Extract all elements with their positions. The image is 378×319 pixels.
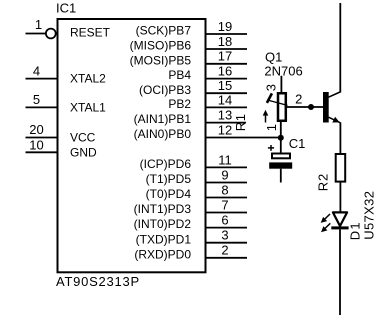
D1 emission arrow 1 [321,214,330,223]
node junction dot at R1 bottom / C1 / PB0 [278,135,284,141]
svg-text:2N706: 2N706 [264,63,302,78]
R1 wiper flag [267,93,272,103]
pin 19 wire [206,33,248,35]
Q1 emitter diagonal [329,117,341,123]
svg-text:R1: R1 [233,114,248,132]
svg-text:1: 1 [264,124,279,131]
svg-text:(T0)PD4: (T0)PD4 [146,187,192,201]
R1 wiper diagonal [268,100,287,105]
svg-text:(OCI)PB3: (OCI)PB3 [139,83,191,97]
resistor R2 body [336,154,346,182]
LED D1 triangle [333,212,347,226]
pin 9 wire [206,182,248,184]
svg-text:11: 11 [218,152,232,167]
svg-text:4: 4 [33,63,40,78]
pin 2 wire [206,257,248,259]
pin 4 wire [26,78,58,80]
svg-text:IC1: IC1 [56,0,76,15]
svg-text:3: 3 [264,84,279,91]
IC U1 (AT90S2313P) body [58,19,206,272]
R1 pin 1 bottom wire to C1 [280,121,282,153]
pin 5 wire [26,106,58,108]
transistor Q1 base bar [323,92,329,123]
wire R2 to D1 [339,182,341,213]
svg-text:(RXD)PD0: (RXD)PD0 [134,247,191,261]
svg-text:Q1: Q1 [265,50,282,65]
svg-text:8: 8 [221,182,228,197]
capacitor C1 top plate [272,154,290,159]
svg-text:PB4: PB4 [168,68,191,82]
pin 12 wire / net to R1 wiper junction [206,137,281,139]
pin 20 wire [26,137,58,139]
svg-text:5: 5 [33,92,40,107]
svg-text:(INT0)PD2: (INT0)PD2 [134,217,192,231]
D1 emission arrow 2 [321,223,330,232]
pin 16 wire [206,78,248,80]
svg-text:VCC: VCC [70,131,96,145]
svg-text:10: 10 [29,138,43,153]
pin 15 wire [206,92,248,94]
pin 1 inversion circle [46,29,56,39]
svg-text:20: 20 [29,122,43,137]
svg-text:RESET: RESET [70,26,111,40]
Q1 emitter arrowhead [332,117,339,123]
svg-text:17: 17 [218,49,232,64]
svg-text:18: 18 [218,34,232,49]
pin 10 wire [26,151,58,153]
svg-text:15: 15 [218,78,232,93]
pin 18 wire [206,48,248,50]
svg-text:XTAL2: XTAL2 [70,72,106,86]
svg-text:1: 1 [35,17,42,32]
svg-text:9: 9 [221,167,228,182]
svg-text:(T1)PD5: (T1)PD5 [146,172,192,186]
svg-text:12: 12 [218,122,232,137]
svg-text:6: 6 [221,213,228,228]
pin 8 wire [206,197,248,199]
svg-text:(ICP)PD6: (ICP)PD6 [140,157,192,171]
pin 1 wire [26,33,46,35]
capacitor C1 bottom plate [269,162,292,168]
svg-text:R2: R2 [315,173,330,191]
svg-text:U57X32: U57X32 [361,191,376,240]
junction dot on base wire [308,104,314,110]
wire R1 wiper to Q1 base [287,106,324,108]
svg-text:3: 3 [221,228,228,243]
svg-text:13: 13 [218,108,232,123]
trimmer R1 body [278,93,286,121]
svg-text:2: 2 [295,92,302,107]
pin 14 wire [206,106,248,108]
svg-text:19: 19 [218,19,232,34]
svg-text:C1: C1 [289,136,306,151]
svg-text:XTAL1: XTAL1 [70,100,106,114]
svg-text:AT90S2313P: AT90S2313P [56,274,140,289]
svg-text:(MISO)PB6: (MISO)PB6 [130,39,192,53]
svg-text:(AIN0)PB0: (AIN0)PB0 [134,127,192,141]
emitter vertical wire to R2 [339,123,341,154]
pin 17 wire [206,63,248,65]
svg-text:14: 14 [218,92,232,107]
D1 cathode bar [331,226,348,229]
pin 13 wire [206,122,247,124]
svg-text:(INT1)PD3: (INT1)PD3 [134,202,192,216]
R1 pin 3 top wire [280,76,282,93]
svg-text:7: 7 [221,197,228,212]
svg-text:2: 2 [221,243,228,258]
capacitor C1 plus sign [268,145,274,151]
collector vertical wire to top [339,3,341,93]
svg-text:(SCK)PB7: (SCK)PB7 [136,24,192,38]
svg-text:(TXD)PD1: (TXD)PD1 [136,232,192,246]
svg-text:(AIN1)PB1: (AIN1)PB1 [134,112,192,126]
C1 bottom stub wire [280,169,282,183]
Q1 collector diagonal [329,92,341,97]
pin 11 wire [206,166,248,168]
pin 6 wire [206,227,248,229]
svg-text:GND: GND [70,145,97,159]
pin 7 wire [206,212,248,214]
svg-text:(MOSI)PB5: (MOSI)PB5 [130,53,192,67]
pin 3 wire [206,242,248,244]
wire D1 cathode down [339,229,341,315]
svg-text:16: 16 [218,64,232,79]
R1 adjustment arrow [263,110,269,123]
svg-text:PB2: PB2 [168,97,191,111]
